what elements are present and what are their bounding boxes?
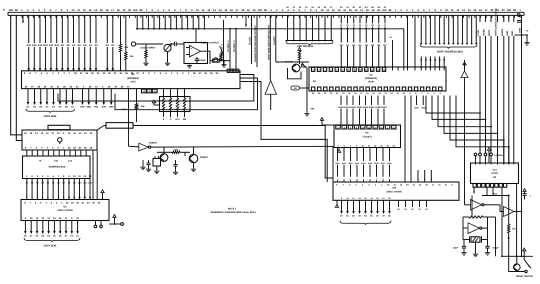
audio feed lines: [136, 15, 205, 29]
wire latch bypass B: [96, 150, 98, 200]
svg-text:NC: NC: [313, 80, 317, 83]
svg-text:100: 100: [507, 9, 512, 12]
resistor R4 220: [210, 59, 230, 62]
wire stair 6: [456, 96, 510, 165]
svg-text:AUDIO OUTPUT: AUDIO OUTPUT: [201, 41, 219, 44]
svg-text:OUTPUT 1: OUTPUT 1: [227, 40, 230, 52]
svg-text:CLOCK: CLOCK: [249, 36, 252, 45]
svg-text:3.58MHz: 3.58MHz: [494, 154, 503, 157]
wire clock E: [128, 89, 130, 147]
crystal Y2: [463, 228, 488, 243]
svg-text:R/W: R/W: [422, 107, 426, 110]
ground crystal: [473, 242, 478, 256]
svg-text:BA0: BA0: [336, 162, 340, 165]
svg-text:100: 100: [382, 9, 387, 12]
circle marker: [58, 138, 62, 144]
buffer bottom pin numbers: [25, 147, 93, 150]
svg-text:SCHEMATIC DIAGRAM (SEE Clock,: SCHEMATIC DIAGRAM (SEE Clock, EDO): [210, 211, 255, 214]
wire address feed A: [407, 15, 409, 67]
svg-text:40: 40: [154, 90, 156, 93]
svg-text:AUDIO INPUT: AUDIO INPUT: [140, 47, 156, 50]
svg-text:A11: A11: [49, 44, 54, 47]
transistor Q2: [160, 147, 168, 162]
wire signal: [273, 15, 309, 62]
connector pin numbers: [9, 9, 522, 18]
ground: [143, 62, 148, 66]
wire wrap C: [240, 82, 327, 183]
buffer U12: [465, 200, 504, 212]
brace ROM data bus: [24, 238, 80, 242]
svg-text:MR: MR: [183, 118, 187, 121]
pin squares 26 25: [227, 69, 239, 73]
wire bus A left: [11, 15, 22, 134]
wire key bus: [286, 40, 334, 42]
svg-text:2048 x 8 ROM: 2048 x 8 ROM: [386, 190, 401, 193]
op-amp U1: [186, 46, 201, 58]
ground stub under connector: [22, 15, 24, 23]
svg-text:2: 2: [313, 68, 314, 71]
wire RAM to ROM A: [404, 96, 406, 183]
svg-text:7: 7: [342, 68, 343, 71]
+5 supply ROM: [101, 190, 104, 200]
svg-text:CHARACTER GEN ROM OUTPUT: CHARACTER GEN ROM OUTPUT: [254, 25, 257, 62]
speaker jack J2: [210, 58, 218, 64]
svg-text:2N4401: 2N4401: [285, 61, 294, 64]
RAM U6 MPS6810: [309, 67, 446, 91]
svg-text:RAM: RAM: [368, 81, 373, 84]
RAM bottom pin squares: [312, 87, 442, 91]
H sync oval: [291, 86, 309, 90]
inverter U14: [463, 217, 496, 256]
wire +5 feed: [389, 36, 392, 67]
wire B2 out to bus: [97, 123, 333, 178]
svg-text:7: 7: [376, 178, 377, 181]
audio input jack: [131, 42, 140, 46]
wire base feed: [157, 151, 172, 153]
buffered address drops: [420, 57, 446, 68]
ground: [485, 252, 490, 256]
ROM data lines: [24, 221, 80, 238]
ground: [304, 108, 309, 116]
ground: [187, 65, 192, 69]
373 top pin numbers: [336, 125, 396, 129]
svg-text:2048 x 8 ROM: 2048 x 8 ROM: [57, 209, 72, 212]
svg-text:20pF: 20pF: [453, 247, 459, 250]
op-amp U1 box: [184, 43, 208, 64]
svg-text:RAM6: RAM6: [375, 106, 381, 109]
svg-text:RAM0: RAM0: [338, 106, 344, 109]
buffer U13: [504, 207, 523, 217]
stub R/W: [422, 96, 426, 110]
+5 supply reset: [523, 248, 526, 256]
wire collector loop: [288, 68, 302, 79]
capacitor C6: [173, 160, 178, 175]
wire OUTPUT 1: [227, 28, 231, 71]
svg-text:DATA BUS: DATA BUS: [44, 115, 57, 118]
svg-text:(MPS6810): (MPS6810): [365, 77, 377, 80]
373 bottom pin numbers: [337, 144, 395, 147]
resistor R6: [298, 51, 300, 64]
ROM1 bottom pin numbers: [25, 217, 80, 220]
svg-text:Y-SIG: Y-SIG: [477, 30, 480, 36]
svg-text:A10: A10: [54, 44, 59, 47]
svg-text:BA3: BA3: [355, 162, 359, 165]
wire wrap A: [58, 75, 254, 102]
svg-text:BA7: BA7: [381, 162, 385, 165]
wiper arrow: [220, 46, 224, 53]
svg-text:VERT: VERT: [488, 29, 491, 36]
resistor pack RP1: [160, 89, 191, 117]
svg-text:200pF: 200pF: [492, 247, 499, 250]
RAM bottom pin labels: [312, 92, 442, 95]
CS line with +5: [109, 215, 123, 226]
resistor R9 feedback: [463, 216, 488, 218]
svg-text:100: 100: [258, 9, 263, 12]
latched address lines: [25, 179, 92, 200]
resistor R10 reset: [508, 195, 517, 257]
resistor R8 220k: [172, 148, 190, 156]
ROM2 data lines: [340, 200, 391, 217]
ground stub under crt: [473, 187, 475, 194]
svg-text:RESET SWITCH: RESET SWITCH: [516, 275, 533, 278]
resistor R2 20k: [125, 15, 134, 70]
capacitor C2 220uF: [195, 57, 206, 64]
RAM top pin squares: [312, 67, 386, 71]
wire bus B left: [16, 15, 22, 140]
svg-text:OUTPUT 2: OUTPUT 2: [233, 40, 236, 52]
resistor R5: [220, 52, 222, 61]
brace buff address bus: [420, 44, 477, 48]
ground: [191, 163, 196, 172]
svg-text:RAM7: RAM7: [381, 106, 387, 109]
wire ROM2 right feeds: [417, 170, 432, 182]
transistor Q3 2N2907: [189, 147, 208, 163]
ROM U10 2048x8: [333, 182, 459, 200]
svg-text:3: 3: [350, 178, 351, 181]
+5 supply crt: [487, 148, 490, 164]
svg-text:RST: RST: [80, 106, 85, 109]
wire stair 1: [426, 96, 481, 154]
RAM input lines: [339, 6, 387, 67]
svg-text:(CRT): (CRT): [492, 172, 499, 175]
svg-text:IRQ: IRQ: [94, 106, 98, 109]
buffer top pin numbers: [24, 132, 93, 135]
svg-text:100: 100: [9, 9, 14, 12]
svg-text:100: 100: [133, 9, 138, 12]
wire audio bus horizontal: [136, 28, 404, 30]
wire to ground net: [515, 30, 530, 39]
+5 supply RAM: [463, 62, 466, 67]
wire crt down A: [516, 184, 518, 257]
wire audio input: [140, 43, 163, 45]
svg-text:A13: A13: [38, 44, 43, 47]
wire column GND long: [519, 15, 522, 256]
svg-text:9: 9: [389, 178, 390, 181]
buffer U3 box: [22, 130, 97, 150]
ground: [221, 61, 226, 67]
svg-text:2N2907: 2N2907: [149, 142, 158, 145]
wire bus to RAM: [403, 29, 405, 67]
CPU U2 MPS6802: [22, 71, 241, 89]
stub BA8: [414, 96, 419, 110]
wire VERT RAM GEN PURPOSE OUTPUT: [268, 15, 271, 80]
wire RST line: [482, 192, 510, 196]
svg-text:13: 13: [377, 68, 379, 71]
CRT chip U11: [471, 163, 519, 184]
diode D1: [301, 63, 307, 67]
wire test point: [306, 68, 315, 111]
reset switch S1: [524, 256, 531, 268]
gate U8: [129, 143, 151, 151]
+5 supply 373: [320, 118, 334, 126]
CPU data bus lines: [27, 89, 75, 109]
svg-text:BA2: BA2: [349, 162, 353, 165]
svg-text:GND: GND: [511, 31, 514, 36]
keyboard switch lines: [286, 6, 333, 42]
buffered address lines: [420, 15, 477, 44]
svg-text:NOTE 1: NOTE 1: [228, 208, 237, 211]
svg-text:VCC: VCC: [175, 118, 180, 121]
+5 supply: [298, 48, 301, 52]
wire stair 2: [432, 96, 486, 154]
wire OUTPUT 3: [221, 20, 224, 66]
resistor R1 20k: [119, 15, 128, 70]
+5 far right: [523, 189, 526, 194]
svg-text:2N2907: 2N2907: [200, 156, 209, 159]
capacitor C3 top right: [517, 14, 521, 23]
note text: [210, 208, 255, 214]
ROM1 top pin numbers: [24, 201, 100, 204]
wire bottom loop: [509, 256, 528, 272]
wire stair 3: [438, 96, 492, 154]
potentiometer VR1: [164, 44, 172, 62]
address lines to CPU: [26, 15, 115, 70]
CPU control lines: [80, 89, 114, 109]
svg-text:VERT/CABLE OSC GATE: VERT/CABLE OSC GATE: [495, 8, 498, 36]
RAM data lines: [338, 96, 387, 126]
ground: [165, 62, 170, 66]
resistor R3: [145, 44, 147, 62]
brace data bus: [26, 109, 75, 113]
wire crt stub B: [492, 187, 494, 195]
transistor Q4 reset: [514, 256, 521, 272]
svg-text:H-SYNC: H-SYNC: [273, 36, 276, 45]
wire CHARACTER GEN ROM OUTPUT: [254, 15, 257, 67]
wire op-amp supply: [195, 28, 197, 43]
svg-text:39: 39: [148, 90, 150, 93]
wire reset rail: [501, 255, 533, 257]
svg-text:RAM2: RAM2: [350, 106, 356, 109]
+5 supply pack: [152, 100, 159, 105]
buffer amp A1: [461, 60, 468, 205]
svg-text:NMI: NMI: [87, 106, 91, 109]
wire audio output: [201, 51, 211, 61]
svg-text:TP1: TP1: [310, 107, 315, 110]
CRT bottom pin squares: [473, 184, 507, 188]
RAM top right pins: [393, 67, 445, 71]
capacitor C7: [522, 194, 532, 200]
ROM U5 2048x8: [21, 200, 109, 221]
svg-text:220k: 220k: [174, 148, 180, 151]
labels resistor pack: [163, 118, 187, 121]
pin squares 38 39 40: [142, 89, 158, 93]
buffered address to ROM2: [335, 148, 392, 183]
svg-text:(MPS6802): (MPS6802): [127, 77, 139, 80]
svg-text:U10: U10: [392, 187, 397, 190]
latch U9 74LS373: [334, 125, 401, 148]
latch top stubs: [27, 150, 86, 156]
wire wrap B: [115, 78, 258, 110]
svg-text:A14: A14: [32, 44, 37, 47]
svg-text:220μF: 220μF: [199, 59, 206, 62]
ground: [140, 160, 145, 170]
ROM2 top pin numbers: [336, 183, 453, 186]
svg-text:GND: GND: [506, 31, 509, 36]
wire arrow stub: [245, 15, 247, 27]
capacitor C8 20pF: [453, 240, 466, 252]
+5 supply ROM2: [335, 200, 338, 207]
capacitor C5 pack: [153, 156, 161, 174]
video signal columns: [477, 8, 516, 164]
capacitor C4: [146, 160, 151, 172]
svg-text:A15: A15: [26, 44, 31, 47]
svg-text:A12: A12: [43, 44, 48, 47]
input stubs with circles: [474, 153, 487, 164]
ground: [524, 42, 529, 46]
svg-text:6: 6: [336, 68, 337, 71]
wire RAM to ROM B: [410, 96, 412, 183]
brace ROM2 data: [340, 221, 391, 225]
svg-text:VERT RAM GEN PURPOSE OUT: VERT RAM GEN PURPOSE OUT: [268, 24, 271, 60]
svg-text:74LS373: 74LS373: [362, 135, 372, 138]
edge connector J1 bus bar: [8, 12, 524, 15]
ground: [461, 252, 466, 256]
svg-text:10: 10: [359, 68, 361, 71]
capacitor C9 200pF: [485, 246, 499, 252]
ROM2 right stubs: [397, 200, 428, 211]
wire crt stub A: [486, 187, 488, 195]
wire stair 4: [444, 96, 498, 165]
svg-text:RAM5: RAM5: [369, 106, 375, 109]
svg-text:DATA BUS: DATA BUS: [44, 245, 57, 248]
wire osc feed: [471, 196, 473, 218]
ROM2 bottom pin numbers: [341, 197, 392, 200]
brace key bus: [286, 41, 333, 45]
svg-text:VIDEO: VIDEO: [483, 29, 486, 36]
+5 supply 373 below: [337, 148, 340, 153]
svg-text:38: 38: [143, 90, 145, 93]
svg-text:RST: RST: [493, 192, 498, 195]
crystal Y1 on buffer: [48, 125, 70, 130]
stub circle: [490, 153, 493, 164]
capacitor C1: [171, 42, 184, 46]
wire latch bypass A: [92, 150, 94, 200]
svg-text:ADDRESS BUS: ADDRESS BUS: [49, 166, 66, 169]
wire CLOCK: [249, 15, 252, 64]
svg-text:BA6: BA6: [375, 162, 379, 165]
latch bottom pin numbers: [26, 175, 92, 178]
svg-text:VMA: VMA: [109, 106, 114, 109]
svg-text:RAM3: RAM3: [357, 106, 363, 109]
transistor Q1 2N4401: [285, 61, 300, 72]
wire address feed B: [414, 15, 416, 67]
latch U4 address bus: [23, 156, 91, 179]
wire crt col C: [501, 187, 503, 256]
buffer U7 clock: [265, 81, 277, 111]
svg-text:BUFF ADDRESS BUS: BUFF ADDRESS BUS: [437, 51, 463, 54]
CPU top pin numbers: [24, 72, 219, 75]
svg-text:6: 6: [369, 178, 370, 181]
svg-text:GND: GND: [519, 28, 522, 33]
chip select stubs: [94, 221, 102, 228]
svg-text:9: 9: [354, 68, 355, 71]
svg-text:HORIZ: HORIZ: [501, 28, 504, 36]
resistor R7: [135, 89, 145, 122]
svg-text:3: 3: [319, 68, 320, 71]
wire video line long: [151, 146, 333, 182]
wire OUTPUT 2: [233, 28, 237, 71]
svg-text:2: 2: [343, 178, 344, 181]
wire stair 5: [450, 96, 505, 165]
svg-text:12: 12: [371, 68, 373, 71]
CPU bottom pin numbers: [25, 86, 131, 89]
svg-text:U11: U11: [493, 169, 498, 172]
svg-text:CPU: CPU: [131, 80, 136, 83]
